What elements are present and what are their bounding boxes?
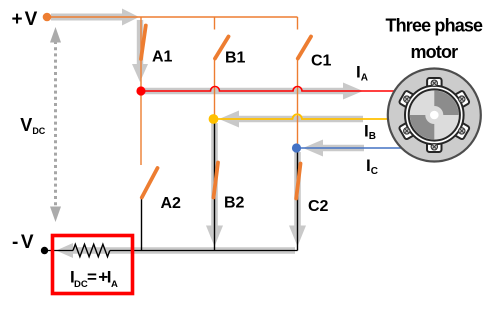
svg-text:B1: B1	[225, 50, 246, 67]
svg-text:C2: C2	[308, 198, 329, 215]
svg-text:+ V: + V	[12, 9, 38, 30]
svg-text:Three phase: Three phase	[386, 16, 484, 36]
svg-text:motor: motor	[411, 42, 459, 62]
svg-text:A2: A2	[161, 195, 182, 212]
svg-text:- V: - V	[12, 232, 34, 253]
svg-text:B2: B2	[224, 195, 245, 212]
svg-text:A1: A1	[152, 49, 173, 66]
svg-text:C1: C1	[311, 53, 332, 70]
